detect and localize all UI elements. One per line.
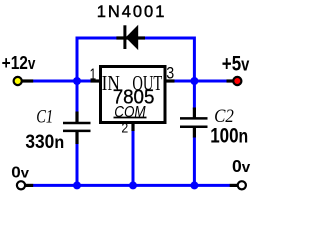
node: ground junction dot left — [73, 181, 81, 189]
svg-text:3: 3 — [166, 65, 174, 83]
wire: pin 2 vertical to 0v rail — [132, 131, 135, 187]
wire: output rail blue segment — [173, 80, 228, 83]
node: ground junction dot middle — [129, 181, 137, 189]
wire: 0v right terminal black lead — [230, 184, 242, 187]
node: input junction dot — [73, 77, 81, 85]
wire: input rail blue segment — [33, 80, 92, 83]
svg-text:+5v: +5v — [222, 52, 250, 77]
terminal 0v left — [17, 181, 25, 189]
wire: pin 2 black lead — [131, 123, 134, 131]
svg-text:C2: C2 — [214, 105, 234, 126]
wire: diode D1 black lead — [116, 36, 145, 39]
wire: C2 bottom black lead — [193, 127, 196, 138]
diode D1 anode triangle — [126, 25, 139, 50]
svg-text:330n: 330n — [25, 130, 64, 152]
svg-text:1: 1 — [90, 66, 97, 83]
wire: C2 top black lead — [193, 108, 196, 119]
wire: +5v terminal black lead — [227, 79, 238, 82]
svg-text:1N4001: 1N4001 — [97, 3, 167, 21]
svg-text:2: 2 — [121, 120, 128, 136]
svg-text:0v: 0v — [232, 156, 251, 176]
terminal +12v — [14, 77, 22, 85]
wire: right vertical below C2 — [193, 137, 196, 186]
terminal 0v right — [238, 181, 246, 189]
wire: bottom 0v rail — [33, 184, 230, 187]
wire: left vertical above C1 — [76, 81, 79, 113]
capacitor C2 top plate — [180, 117, 208, 120]
capacitor C2 bottom plate — [180, 125, 208, 128]
wire: right vertical above C2 — [193, 81, 196, 109]
svg-text:0v: 0v — [11, 163, 29, 181]
svg-text:+12v: +12v — [2, 51, 36, 73]
wire: pin 1 black lead — [91, 79, 101, 82]
wire: top loop from input junction over diode D1 to output junction — [77, 38, 194, 82]
svg-text:100n: 100n — [210, 125, 248, 148]
wire: C1 top black lead — [75, 112, 78, 124]
diode D1 cathode bar — [123, 25, 126, 49]
wire: C1 bottom black lead — [75, 131, 78, 144]
U1 COM underline — [114, 117, 147, 119]
wire: +12v terminal black lead — [18, 79, 34, 82]
wire: left vertical below C1 — [76, 144, 79, 187]
capacitor C1 top plate — [63, 122, 91, 125]
node: output junction dot — [190, 77, 198, 85]
wire: pin 3 black lead — [165, 79, 175, 82]
svg-text:COM: COM — [114, 104, 146, 121]
regulator U1 7805 box — [101, 67, 166, 123]
wire: 0v left terminal black lead — [21, 184, 33, 187]
capacitor C1 bottom plate — [63, 130, 91, 133]
terminal +5v — [233, 77, 241, 85]
svg-text:C1: C1 — [36, 106, 53, 127]
node: ground junction dot right — [190, 181, 198, 189]
